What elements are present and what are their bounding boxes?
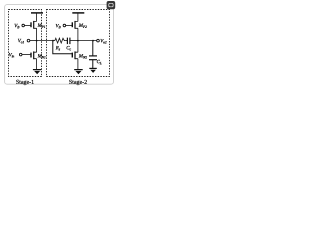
- port V_in: [19, 53, 31, 56]
- port V_o1: [27, 39, 36, 42]
- wire branch to M_N2 gate: [53, 41, 73, 54]
- transistor M_P1: [31, 21, 37, 41]
- resistor R_z: [53, 38, 65, 43]
- stage-2 dashed box: [47, 10, 110, 77]
- VDD supply bar stage-2: [72, 13, 84, 22]
- transistor M_P2: [72, 21, 78, 41]
- port V_o2: [97, 39, 100, 42]
- VDD supply bar stage-1: [31, 13, 43, 22]
- port V_B stage-1: [22, 24, 31, 27]
- outer frame: [5, 5, 114, 85]
- svg-text:Stage-2: Stage-2: [69, 80, 87, 86]
- ground stage-2: [74, 70, 83, 75]
- port V_B stage-2: [63, 24, 72, 27]
- node junction at C_L tap: [92, 40, 94, 42]
- ground stage-1: [33, 70, 42, 75]
- node A junction: [36, 40, 38, 42]
- capacitor C_L: [89, 41, 97, 69]
- wire stage-1 output to R_z: [37, 40, 53, 42]
- ground under C_L: [89, 68, 97, 73]
- background: [0, 0, 120, 90]
- svg-text:Stage-1: Stage-1: [16, 80, 34, 86]
- transistor M_N2: [72, 41, 78, 70]
- wire output row stage-2: [78, 40, 97, 42]
- capacitor C_c: [65, 38, 78, 45]
- logo icon top-right: [107, 1, 116, 9]
- node junction at R_z input: [52, 40, 54, 42]
- transistor M_N1: [31, 41, 37, 70]
- node junction at M_P2 drain: [77, 40, 79, 42]
- stage-1 dashed box: [9, 10, 42, 77]
